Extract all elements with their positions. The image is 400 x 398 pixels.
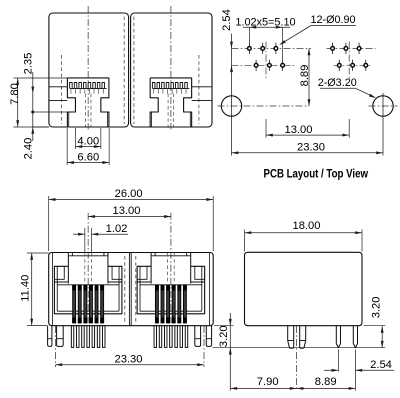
front view pin tails <box>71 326 74 348</box>
front view contact shelf <box>140 284 202 286</box>
mounting hole crosshairs <box>218 105 310 107</box>
mounting peg prong left <box>195 326 201 346</box>
pcb pad row centerlines <box>232 47 312 49</box>
mounting hole right 3.20 <box>373 96 393 116</box>
top view contact tails <box>70 88 72 93</box>
top view: hidden edge dashed lines <box>61 55 63 124</box>
svg-text:13.00: 13.00 <box>285 124 313 136</box>
side view pin extension lines <box>337 350 339 372</box>
top view: connector body left half <box>49 13 129 127</box>
dimension 1.02 <box>84 228 86 253</box>
svg-text:23.30: 23.30 <box>115 353 143 365</box>
mounting peg prong right <box>206 326 211 346</box>
svg-text:2.54: 2.54 <box>221 9 233 31</box>
front view port centerline x=88.15 <box>87 213 89 323</box>
front view contacts <box>73 285 76 323</box>
pcb group centerline left <box>265 42 267 81</box>
dimension 18.00 <box>244 230 246 252</box>
top view hidden contact slot lines <box>84 94 86 127</box>
top view contact comb <box>152 83 187 89</box>
svg-text:2-Ø3.20: 2-Ø3.20 <box>318 77 357 89</box>
top view port centerline x=170.9 <box>170 6 172 130</box>
side view mounting peg <box>288 326 294 348</box>
top view hidden contact slot lines <box>167 94 169 127</box>
top view side feature lines <box>49 86 68 88</box>
front view cavity corner steps <box>54 281 68 283</box>
svg-text:7.80: 7.80 <box>9 83 21 105</box>
front view latch slot walls <box>67 253 69 284</box>
side view pin 2 <box>353 326 357 348</box>
pcb pad hole 5 <box>268 60 270 71</box>
front view latch slot top band <box>71 253 73 256</box>
svg-text:13.00: 13.00 <box>113 205 141 217</box>
mounting peg barb line <box>195 338 201 340</box>
pcb group centerline right <box>348 42 350 81</box>
mounting peg prong left <box>48 326 52 346</box>
front view port cavity outline <box>137 266 205 314</box>
front view contact shelf <box>57 284 119 286</box>
svg-text:2.54: 2.54 <box>370 359 392 371</box>
top view port centerline x=88.15 <box>87 6 89 130</box>
svg-text:8.89: 8.89 <box>299 65 311 87</box>
pcb pad hole 6 <box>282 60 284 71</box>
front view connector body <box>49 253 214 326</box>
dimension 3.20 (side) <box>364 325 386 327</box>
front view hidden lines near seam <box>124 256 126 322</box>
dimension 8.89 (pcb) <box>308 48 310 106</box>
front view contacts <box>155 285 158 323</box>
front view cavity inner lines <box>139 266 141 311</box>
dimension 1.02x5=5.10 <box>248 27 250 43</box>
front view port cavity outline <box>54 266 122 314</box>
svg-text:2.35: 2.35 <box>23 53 35 75</box>
svg-text:6.60: 6.60 <box>77 152 99 164</box>
dimension 23.30 (pcb) <box>232 152 384 154</box>
side view connector body <box>245 252 363 325</box>
pcb pad hole 9 <box>358 43 360 54</box>
dimension 13.00 (pcb) <box>266 134 349 136</box>
dimension 26.00 <box>48 196 50 251</box>
front view latch slot walls <box>150 253 152 284</box>
dimension 8.89 <box>297 387 356 389</box>
front view latch shaft hidden lines <box>84 253 86 284</box>
front view latch shaft hidden lines <box>167 253 169 284</box>
pcb pad hole 7 <box>332 43 334 54</box>
svg-text:PCB Layout / Top View: PCB Layout / Top View <box>264 166 369 180</box>
mounting peg barb line <box>48 338 52 340</box>
front view pin tails <box>154 326 157 348</box>
svg-text:26.00: 26.00 <box>115 188 143 200</box>
dimension 4.00 <box>74 128 76 149</box>
top view contact comb <box>70 83 105 89</box>
front view center seam <box>128 253 130 326</box>
pcb pad hole 2 <box>262 43 264 54</box>
dimension 2.54 (side) <box>324 369 338 371</box>
svg-text:23.30: 23.30 <box>297 141 325 153</box>
pcb pad hole 12 <box>365 60 367 71</box>
svg-text:3.20: 3.20 <box>218 325 230 347</box>
front view cavity corner steps <box>137 281 151 283</box>
front view latch slot top band <box>154 253 156 256</box>
pcb pad hole 11 <box>352 60 354 71</box>
dimension 6.60 <box>66 128 68 165</box>
pcb pad hole 3 <box>275 43 277 54</box>
svg-text:3.20: 3.20 <box>370 297 382 319</box>
pcb pad hole 4 <box>255 60 257 71</box>
svg-text:11.40: 11.40 <box>19 275 31 302</box>
top view port latch pedestal <box>150 77 192 79</box>
mounting peg prong right <box>57 326 64 346</box>
front view cavity inner lines <box>56 266 58 311</box>
dimension 2.35 / 2.40 shared line <box>33 111 67 113</box>
side view pin 1 <box>336 326 340 348</box>
dimension 11.40 <box>27 252 49 254</box>
pcb pad hole 8 <box>345 43 347 54</box>
svg-text:8.89: 8.89 <box>315 376 337 388</box>
mounting hole left 3.20 <box>221 96 241 116</box>
front view inner side walls <box>51 253 53 326</box>
svg-text:12-Ø0.90: 12-Ø0.90 <box>310 14 355 26</box>
dimension 7.90 <box>230 387 296 389</box>
top view: connector body right half <box>131 13 212 127</box>
svg-text:2.40: 2.40 <box>23 138 35 160</box>
front peg centerlines <box>54 326 56 367</box>
side view peg centerline <box>296 326 298 391</box>
dimension 3.20 (front) <box>214 325 234 327</box>
dimension 23.30 (front) <box>55 364 204 366</box>
pcb pad hole 1 <box>248 43 250 54</box>
dimension 7.80 <box>14 77 68 79</box>
svg-text:4.00: 4.00 <box>77 135 99 147</box>
dimension 13.00 (front) <box>88 216 171 218</box>
dimension 2.54 (pcb) <box>230 42 233 49</box>
svg-text:1.02x5=5.10: 1.02x5=5.10 <box>235 17 295 29</box>
svg-text:18.00: 18.00 <box>293 220 321 232</box>
svg-text:7.90: 7.90 <box>257 376 279 388</box>
pcb pad hole 10 <box>338 60 340 71</box>
top view port latch pedestal <box>67 77 109 79</box>
svg-text:1.02: 1.02 <box>106 223 128 235</box>
front view port centerline x=170.9 <box>170 213 172 323</box>
top view contact tails <box>153 88 155 93</box>
